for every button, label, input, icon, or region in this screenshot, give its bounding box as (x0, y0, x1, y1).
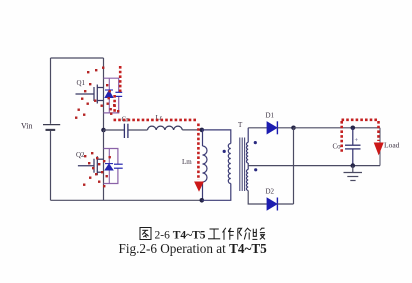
wire left vertical upper (50, 58, 52, 124)
red dot scatter around Q1 (75, 67, 119, 119)
glyph 作 (223, 228, 234, 240)
glyph 段 (252, 228, 265, 239)
svg-text:Q1: Q1 (77, 79, 86, 87)
svg-text:D1: D1 (266, 112, 275, 120)
red dotted current path: Q1 cell vertical lower (113, 95, 116, 114)
transformer core (239, 138, 241, 192)
glyph 工 (208, 229, 220, 239)
red dotted current path: down Lm (197, 124, 200, 181)
svg-text:T: T (238, 121, 243, 129)
wire output top rail (294, 127, 381, 129)
red arrow Lm current (194, 182, 204, 192)
wire (128, 129, 147, 131)
polarity dot primary (223, 150, 226, 153)
Q2 cell branch outline (104, 149, 118, 184)
transformer T primary lead top (202, 130, 231, 144)
inductor Lr (148, 126, 183, 130)
wire (182, 129, 202, 131)
wire mid branch (104, 129, 125, 131)
diode D1 (267, 122, 277, 134)
wire D2 cathode (277, 203, 293, 205)
capacitor Coss Q1 (115, 92, 122, 96)
transistor Q2 mosfet symbol (78, 156, 104, 175)
node primary bottom (200, 198, 205, 203)
svg-text:Lm: Lm (182, 158, 192, 166)
body diode Q2 (105, 149, 113, 184)
svg-text:Q2: Q2 (76, 151, 85, 159)
wire D1-D2 cathode tie (293, 128, 295, 204)
svg-text:Co: Co (333, 143, 342, 151)
transistor Q2 rail (103, 130, 105, 200)
capacitor Coss Q2 (114, 164, 123, 168)
capacitor Co (352, 128, 354, 145)
red dotted output loop top (342, 119, 379, 122)
battery Vin plates (43, 124, 60, 126)
glyph 图 (140, 228, 151, 240)
transformer secondary upper winding (247, 128, 249, 143)
transistor Q1 rail (103, 58, 105, 130)
transformer secondary lower winding (247, 166, 249, 170)
ground (344, 166, 363, 181)
body diode Q1 (105, 78, 113, 113)
wire secondary bottom lead (248, 191, 267, 205)
red dotted output loop right (377, 121, 380, 141)
node midpoint half-bridge (101, 128, 106, 133)
capacitor Cr (124, 124, 128, 138)
svg-text:D2: D2 (266, 188, 275, 196)
wire load stub (379, 128, 381, 166)
wire bottom rail (51, 199, 202, 201)
red dot scatter around Q2 (83, 152, 111, 187)
inductor Lm (202, 130, 204, 146)
red arrow load current (374, 143, 384, 156)
diode D2 (267, 198, 277, 210)
svg-text:2-6 T4~T5: 2-6 T4~T5 (155, 230, 206, 242)
transformer T primary winding (228, 144, 231, 184)
node Co top (351, 126, 356, 131)
svg-text:Fig.2-6 Operation at T4~T5: Fig.2-6 Operation at T4~T5 (119, 241, 268, 256)
svg-text:+: + (355, 137, 359, 144)
Q1 cell branch outline (104, 78, 119, 113)
polarity dot secondary upper (254, 141, 257, 144)
node Lr/Lm junction (200, 128, 205, 133)
node rectifier output (291, 126, 296, 131)
polarity dot secondary lower (254, 168, 257, 171)
svg-text:Vin: Vin (21, 122, 33, 131)
wire left vertical lower (50, 131, 52, 201)
caption line 1: 图 2-6 T4~T5 工作阶段 (140, 228, 265, 240)
wire top rail (51, 57, 104, 59)
transformer T primary lead bottom (202, 184, 231, 201)
wire D1 cathode (277, 127, 293, 129)
red dotted output loop left (340, 121, 343, 152)
transistor Q1 mosfet symbol (76, 85, 104, 104)
svg-text:Load: Load (384, 141, 400, 150)
glyph 阶 (238, 228, 251, 239)
red dotted current path: Q1 cell vertical upper (119, 66, 122, 92)
red dotted current path: horizontal to Lm (114, 119, 198, 122)
wire output bottom rail (center tap) (248, 165, 380, 167)
node Co bottom (351, 163, 356, 168)
wire secondary top lead (248, 127, 267, 129)
